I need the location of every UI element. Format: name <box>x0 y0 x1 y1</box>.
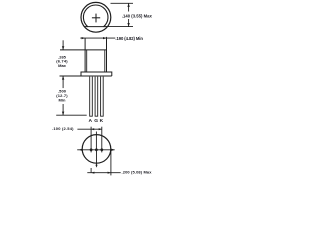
lead A <box>90 77 104 117</box>
lead dot A <box>90 148 93 151</box>
centerline arrow down <box>95 165 97 168</box>
arrow down at lead tick <box>62 112 64 116</box>
svg-text:Max: Max <box>58 63 67 68</box>
dim .265/.500 shared middle segment <box>62 76 64 88</box>
arrow up at seating tick <box>62 76 64 80</box>
dim .100 leader+line <box>77 127 101 153</box>
svg-text:.140 (3.55) Max: .140 (3.55) Max <box>122 13 153 18</box>
arrow down at can top tick <box>62 46 64 50</box>
svg-text:.190 (4.82) Min: .190 (4.82) Min <box>115 36 143 41</box>
dim .190 line <box>80 37 115 38</box>
dim .190 right ext overshoot <box>106 37 108 38</box>
lead length tick <box>56 114 86 116</box>
dim .140 line lower segment <box>128 19 130 27</box>
can outer wall left / dim ext <box>84 38 86 72</box>
dim .500 lower segment <box>62 104 64 115</box>
dim .140 top tick <box>106 3 133 26</box>
svg-text:.100 (2.54): .100 (2.54) <box>52 126 74 131</box>
lead line arrowheads <box>79 149 83 151</box>
riser K <box>101 127 103 153</box>
lead dot K <box>100 148 103 151</box>
dim .100 arrowheads <box>91 128 94 130</box>
dim .200 right ext <box>110 150 112 175</box>
svg-text:K: K <box>100 118 104 124</box>
dim .140 arrowheads <box>127 3 129 7</box>
can outer wall right / dim ext <box>106 38 108 72</box>
lead K <box>101 77 104 117</box>
crosshair <box>92 14 100 23</box>
seating plane line + flange bottom <box>60 75 112 77</box>
svg-text:A: A <box>89 118 93 124</box>
top view inner circle (clipped at flat) <box>83 5 108 27</box>
dim .265 upper arrow tail <box>62 40 64 115</box>
lead dot G <box>95 148 98 151</box>
flat chord <box>84 26 106 28</box>
lead line through dots <box>77 149 115 151</box>
svg-text:Min: Min <box>59 97 67 102</box>
can top + height tick <box>60 38 107 72</box>
bottom view circle <box>82 135 111 164</box>
dim .200 line <box>87 172 120 174</box>
centerline tail below G dot <box>96 150 98 165</box>
svg-text:.200 (5.08) Max: .200 (5.08) Max <box>122 170 153 175</box>
svg-text:G: G <box>94 118 98 124</box>
flange <box>60 72 112 76</box>
dim .200 left ext <box>87 150 120 175</box>
top view outer circle <box>81 2 111 32</box>
dim .200 arrowheads <box>91 172 94 174</box>
dim .140 bottom tick <box>106 26 133 28</box>
lead G <box>95 77 98 117</box>
riser G <box>95 132 97 150</box>
dim .140 line upper segment <box>128 3 130 11</box>
dim .190 arrowheads <box>82 37 86 39</box>
can inner walls <box>87 50 105 72</box>
riser A <box>90 127 92 153</box>
